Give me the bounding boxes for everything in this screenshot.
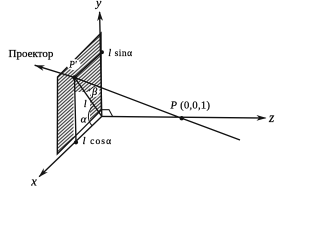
svg-text:β: β: [91, 87, 98, 98]
svg-text:l sinα: l sinα: [108, 48, 132, 59]
plane (xy-plane patch, hatched parallelogram): [57, 33, 101, 154]
projector arrowhead: [35, 65, 45, 71]
svg-text:P′: P′: [68, 60, 77, 70]
white halo behind beta label: [90, 85, 100, 97]
alpha angle arc at O: [88, 105, 94, 126]
z axis arrowhead: [257, 115, 267, 121]
point l*cos(a) on x axis: [74, 140, 78, 144]
svg-text:l: l: [84, 99, 87, 110]
svg-text:P (0,0,1): P (0,0,1): [170, 101, 211, 112]
point l*sin(a) on y axis: [100, 50, 104, 54]
y axis: [100, 12, 102, 116]
segment O to P' (length l): [75, 78, 102, 117]
point P(0,0,1) on z axis: [180, 116, 184, 120]
right-angle marker at origin on z axis: [102, 110, 113, 116]
x axis: [39, 116, 102, 176]
z axis: [102, 116, 266, 118]
segment P' to l*sin(a) point on y axis: [75, 52, 103, 77]
svg-text:l cosα: l cosα: [83, 135, 113, 147]
svg-text:Проектор: Проектор: [9, 48, 54, 60]
y axis arrowhead: [97, 11, 103, 21]
beta angle arc at P': [89, 85, 97, 91]
svg-text:z: z: [268, 110, 275, 125]
white halo behind P' label: [67, 59, 81, 70]
svg-text:α: α: [81, 114, 87, 126]
segment P' down to l*cos(a) point on x axis: [75, 78, 77, 143]
svg-text:x: x: [30, 174, 37, 188]
projector line through P' and P: [35, 65, 240, 140]
point P': [72, 75, 77, 80]
white band behind l and alpha labels along P'B line: [74, 92, 91, 137]
svg-text:y: y: [95, 0, 102, 9]
x axis arrowhead: [39, 168, 48, 177]
